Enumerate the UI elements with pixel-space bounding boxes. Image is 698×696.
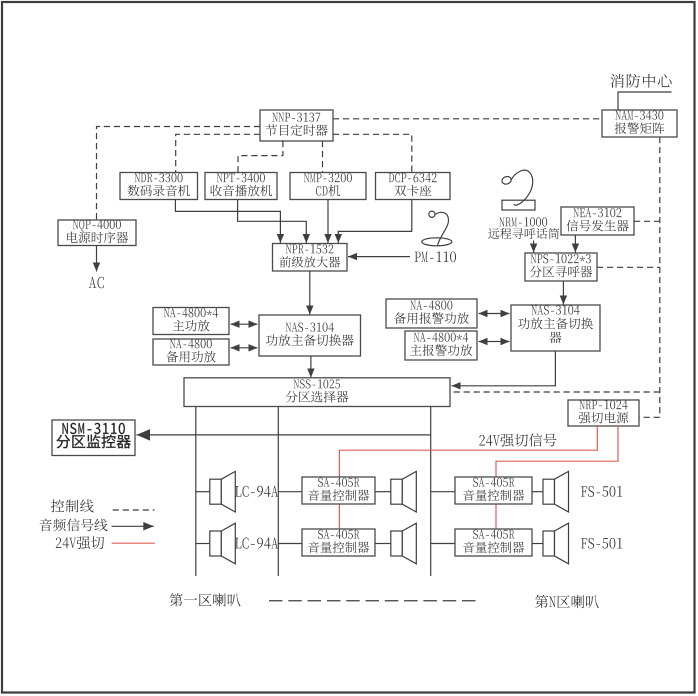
label FS-501 row2 — [581, 538, 622, 549]
wire bus to LC-94A speaker row2 — [196, 543, 210, 545]
box NAS-3104 功放主备切换器 (amp switcher) right — [511, 305, 600, 351]
wire NPT-3400 to NPR-1532 — [238, 200, 310, 244]
dashed line NPS-1022 to control bus — [597, 266, 660, 268]
wire from fire center to NAM-3430 — [618, 92, 672, 110]
red 24V wire NRP-1024 to zoneN volume controllers — [496, 426, 618, 477]
dashed control bus from NAM-3430 down — [659, 137, 661, 417]
label 第一区喇叭 (zone 1 speakers) — [170, 593, 241, 606]
box NMP-3200 CD机 (CD player) — [290, 173, 366, 200]
double arrow NA-4800 backup amp to NAS-3104 — [231, 344, 258, 351]
box NA-4800 备用功放 (backup amplifier) — [153, 339, 229, 365]
speaker FS-501 row2 icon — [543, 523, 569, 564]
wire NQP-4000 to AC with arrow — [93, 246, 100, 272]
dashed control line NNP-3137 to NAM-3430 — [333, 118, 602, 120]
dashed control line NNP-3137 to NMP-3200 — [322, 141, 324, 172]
box DCP-6342 双卡座 (dual cassette deck) — [376, 173, 451, 200]
double arrow NA-4800*4 main amp to NAS-3104 — [231, 321, 258, 328]
dashed control line NNP-3137 to NDR-3300 — [176, 134, 260, 172]
legend label 控制线 (control line) — [51, 499, 94, 512]
box NAM-3430 报警矩阵 (alarm matrix) — [602, 110, 677, 137]
box NA-4800*4 主功放 (main amplifier) — [153, 308, 229, 335]
wire bus B to SA-405R zone1 row2 — [278, 543, 302, 545]
wire bus to SA-405R zoneN row1 — [431, 491, 455, 493]
legend dashed control line sample — [113, 509, 155, 511]
box NPT-3400 收音播放机 (tuner player) — [205, 173, 277, 200]
wire zone1 speaker bus A — [195, 407, 197, 577]
wire zoneN speaker bus — [430, 407, 432, 577]
dashed line control bus to NSS-1025 — [450, 391, 660, 393]
label LC-94A row1 — [235, 486, 278, 497]
speaker icon zone1 row2 right — [391, 523, 417, 564]
box NQP-4000 电源时序器 (power sequencer) — [58, 220, 136, 246]
dashed line NEA-3102 to control bus — [634, 220, 660, 222]
box SA-405R 音量控制器 zoneN row1 — [455, 477, 532, 504]
label 第N区喇叭 (zone N speakers) — [535, 595, 599, 608]
label 消防中心 (fire center) — [610, 74, 671, 88]
box NRP-1024 强切电源 (24V override power) — [568, 400, 639, 426]
box NNP-3137 节目定时器 (program timer) — [260, 110, 333, 141]
red 24V wire zoneN SA-405R row1 to row2 — [495, 504, 497, 529]
speaker LC-94A row2 icon — [210, 523, 236, 564]
label FS-501 row1 — [581, 486, 622, 497]
label AC — [89, 277, 104, 289]
double arrow backup alarm amp to NAS-3104 right — [479, 310, 510, 317]
dashed separator between zones — [269, 600, 479, 602]
box NPS-1022*3 分区寻呼器 (zone pager) — [525, 253, 597, 281]
speaker LC-94A row1 icon — [210, 471, 236, 512]
legend red 24V line sample — [112, 542, 155, 544]
legend audio arrow sample — [112, 522, 154, 531]
wire SA-405R to speaker zone1 row2 — [375, 543, 391, 545]
box NA-4800*4 主报警功放 (main alarm amp) — [405, 331, 477, 360]
wire bus to LC-94A speaker row1 — [196, 491, 210, 493]
box NSS-1025 分区选择器 (zone selector) — [184, 378, 450, 407]
dashed control line NNP-3137 to NQP-4000 — [97, 127, 261, 221]
box SA-405R 音量控制器 zone1 row1 — [302, 477, 375, 504]
wire NDR-3300 to NPR-1532 — [175, 200, 284, 244]
box NDR-3300 数码录音机 (digital recorder) — [120, 173, 198, 200]
box NPR-1532 前级放大器 (preamplifier) — [273, 244, 348, 272]
microphone NRM-1000 icon — [501, 170, 535, 210]
box NA-4800 备用报警功放 (backup alarm amp) — [386, 299, 477, 328]
wire NPR-1532 to NAS-3104 left — [306, 271, 313, 315]
label 24V强切信号 (24V override signal) — [479, 433, 556, 446]
red 24V wire zone1 SA-405R row1 to row2 — [338, 504, 340, 529]
wire zone1 speaker bus B — [277, 407, 279, 577]
wire DCP-6342 to NPR-1532 — [335, 200, 412, 244]
wire speaker bus to NSM-3110 monitor — [137, 429, 431, 441]
wire NRM-1000 to NPS-1022 — [530, 241, 537, 253]
wire SA-405R to speaker zone1 row1 — [375, 491, 391, 493]
speaker FS-501 row1 icon — [543, 471, 569, 512]
wire NMP-3200 to NPR-1532 — [324, 200, 331, 244]
wire PM-110 to NPR-1532 — [348, 253, 410, 260]
box NEA-3102 信号发生器 (signal generator) — [561, 207, 634, 235]
legend label 24V强切 (24V override) — [56, 536, 104, 549]
wire NEA-3102 to NPS-1022 — [572, 235, 579, 253]
dashed line control bus to NRP-1024 — [639, 416, 660, 418]
dashed control line NNP-3137 to DCP-6342 — [333, 134, 412, 172]
dashed control line NNP-3137 to NPT-3400 — [238, 141, 283, 172]
red 24V wire NRP-1024 to zone1 volume controllers — [339, 426, 597, 477]
wire SA-405R to FS-501 speaker zoneN row1 — [532, 491, 543, 493]
label 远程寻呼话筒 (remote paging mic) — [488, 228, 559, 239]
double arrow main alarm amp to NAS-3104 right — [479, 338, 510, 345]
wire bus to SA-405R zoneN row2 — [431, 543, 455, 545]
label NRM-1000 — [499, 217, 547, 226]
box NSM-3110 分区监控器 (zone monitor) — [52, 420, 135, 456]
wire NPS-1022 to NAS-3104 right — [560, 281, 567, 305]
box SA-405R 音量控制器 zone1 row2 — [302, 529, 375, 556]
label LC-94A row2 — [235, 538, 278, 549]
speaker icon zone1 row1 right — [391, 471, 417, 512]
wire NAS-3104 right to NSS-1025 — [452, 351, 556, 390]
legend label 音频信号线 (audio signal line) — [40, 518, 108, 531]
label PM-110 — [415, 251, 456, 262]
microphone PM-110 icon — [422, 211, 452, 246]
box SA-405R 音量控制器 zoneN row2 — [455, 529, 532, 556]
wire bus B to SA-405R zone1 row1 — [278, 491, 302, 493]
wire SA-405R to FS-501 speaker zoneN row2 — [532, 543, 543, 545]
box NAS-3104 功放主备切换器 (amp main/backup switcher) left — [259, 315, 361, 356]
wire NAS-3104 left to NSS-1025 — [307, 356, 314, 378]
